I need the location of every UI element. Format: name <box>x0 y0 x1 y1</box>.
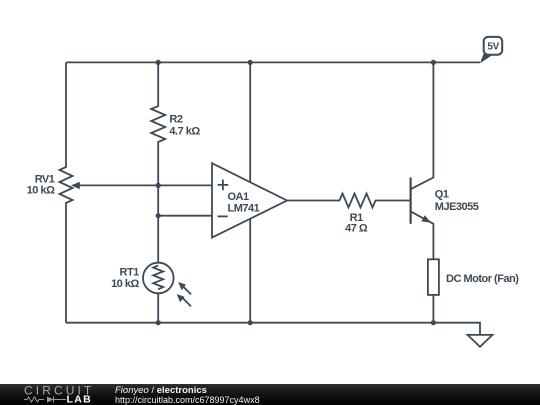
svg-text:LM741: LM741 <box>228 202 260 214</box>
svg-text:R2: R2 <box>169 113 182 125</box>
svg-text:OA1: OA1 <box>228 191 250 203</box>
svg-text:5V: 5V <box>487 41 499 52</box>
svg-text:LAB: LAB <box>67 393 92 405</box>
svg-text:MJE3055: MJE3055 <box>435 201 479 213</box>
svg-text:RT1: RT1 <box>120 266 140 278</box>
svg-text:DC Motor (Fan): DC Motor (Fan) <box>446 273 519 285</box>
svg-text:Q1: Q1 <box>435 189 449 201</box>
svg-text:47 Ω: 47 Ω <box>345 223 368 235</box>
svg-text:4.7 kΩ: 4.7 kΩ <box>169 126 200 138</box>
svg-text:10 kΩ: 10 kΩ <box>111 278 139 290</box>
svg-text:10 kΩ: 10 kΩ <box>27 184 55 196</box>
